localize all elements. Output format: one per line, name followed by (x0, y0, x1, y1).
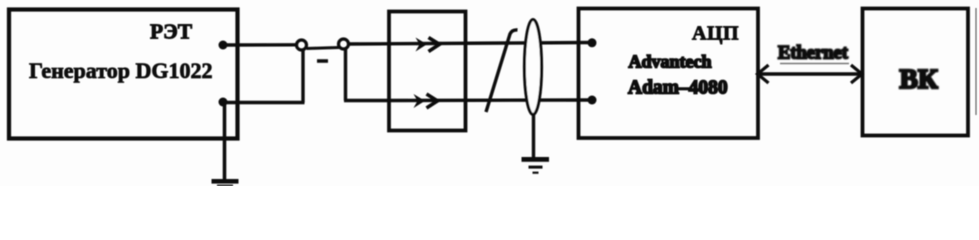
shield ellipse of cable (524, 20, 541, 115)
svg-text:Advantech: Advantech (629, 52, 712, 72)
svg-text:РЭТ: РЭТ (150, 20, 193, 44)
svg-text:Генератор DG1022: Генератор DG1022 (29, 58, 212, 83)
svg-text:Adam–4080: Adam–4080 (628, 78, 728, 99)
node ADC input 1 (588, 38, 597, 47)
wire shield to ground (532, 113, 535, 158)
arrowhead on bottom line (414, 94, 426, 108)
wire drop from contact X1 to bottom wire (301, 50, 304, 103)
wire drop from contact X2 to lower line (344, 49, 347, 101)
svg-text:ВК: ВК (900, 63, 938, 94)
wire bottom output from generator (223, 101, 305, 104)
svg-text:Ethernet: Ethernet (778, 44, 849, 64)
block computer ВК (863, 9, 969, 136)
svg-text:АЦП: АЦП (692, 23, 739, 45)
node top output terminal (219, 41, 228, 50)
chevron on top line (429, 38, 440, 52)
wire lower line to attenuator block (344, 99, 390, 102)
cable-count slash mark (486, 30, 518, 112)
wire lower line through attenuator to ADC (390, 98, 592, 102)
connector contact X1 (left circle) (297, 40, 307, 50)
chevron on bottom line (427, 94, 438, 108)
wire top line from contact X2 to ADC (347, 43, 592, 45)
arrowhead on top line (416, 38, 428, 52)
wire ground lead of generator (223, 102, 227, 180)
block attenuator/adapter (389, 12, 466, 131)
wire switch blade between contacts (307, 48, 340, 49)
connector contact X2 (right circle) (339, 39, 349, 49)
ground symbol under generator (212, 179, 239, 186)
node bottom output terminal (219, 98, 228, 107)
node ADC input 2 (588, 96, 597, 105)
wire top output from generator (223, 43, 297, 47)
separable-connection dash mark (317, 59, 328, 63)
block ADC АЦП (579, 9, 759, 139)
scan artifact line at right edge (975, 8, 977, 115)
ground symbol under shield (522, 157, 550, 174)
Ethernet double arrow link (758, 64, 863, 84)
block generator РЭТ (9, 10, 238, 139)
